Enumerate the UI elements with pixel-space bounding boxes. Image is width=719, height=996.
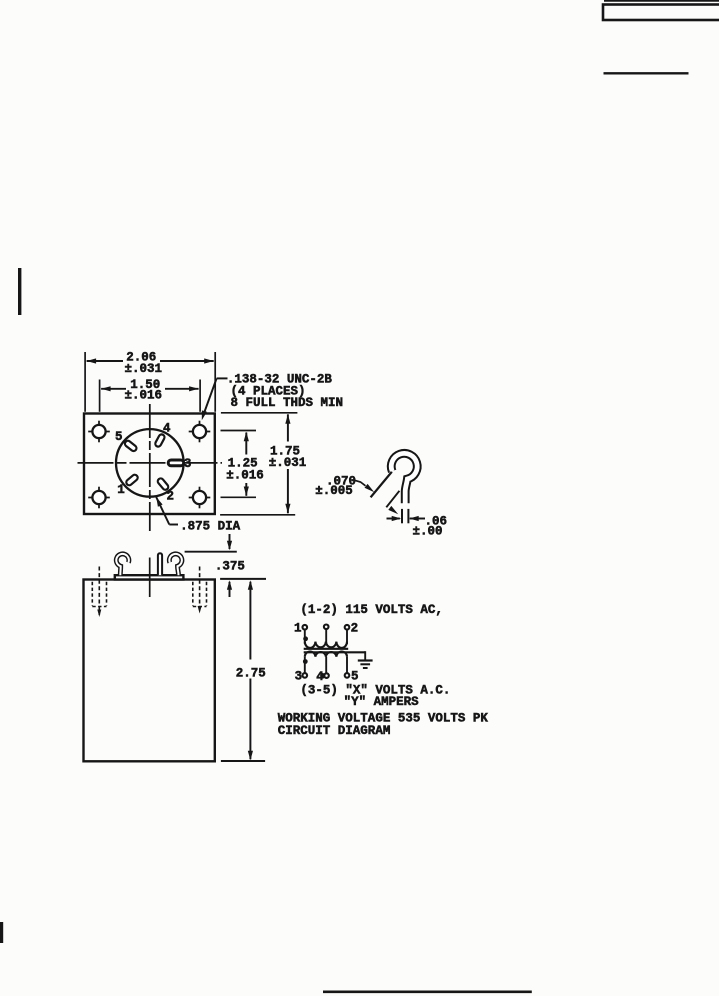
svg-text:4: 4 — [163, 421, 171, 435]
svg-text:2: 2 — [351, 622, 359, 636]
svg-text:CIRCUIT DIAGRAM: CIRCUIT DIAGRAM — [278, 724, 391, 738]
svg-text:±.00: ±.00 — [413, 524, 443, 538]
svg-text:4: 4 — [316, 670, 324, 684]
svg-text:±.005: ±.005 — [315, 484, 353, 498]
svg-text:.375: .375 — [215, 560, 245, 574]
svg-text:±.031: ±.031 — [269, 456, 307, 470]
svg-text:3: 3 — [184, 457, 192, 471]
svg-text:1: 1 — [117, 483, 125, 497]
svg-text:5: 5 — [115, 430, 123, 444]
svg-text:2.75: 2.75 — [236, 666, 266, 680]
svg-text:1: 1 — [294, 622, 302, 636]
svg-text:2: 2 — [167, 489, 175, 503]
svg-text:±.016: ±.016 — [124, 389, 162, 403]
svg-text:5: 5 — [351, 670, 359, 684]
svg-text:±.016: ±.016 — [226, 468, 264, 482]
svg-text:8 FULL THDS MIN: 8 FULL THDS MIN — [231, 396, 344, 410]
svg-text:3: 3 — [295, 670, 303, 684]
svg-text:"Y" AMPERS: "Y" AMPERS — [344, 695, 420, 709]
svg-text:±.031: ±.031 — [124, 362, 162, 376]
svg-text:(1-2) 115 VOLTS AC,: (1-2) 115 VOLTS AC, — [300, 603, 443, 617]
svg-text:.875 DIA: .875 DIA — [180, 520, 241, 534]
